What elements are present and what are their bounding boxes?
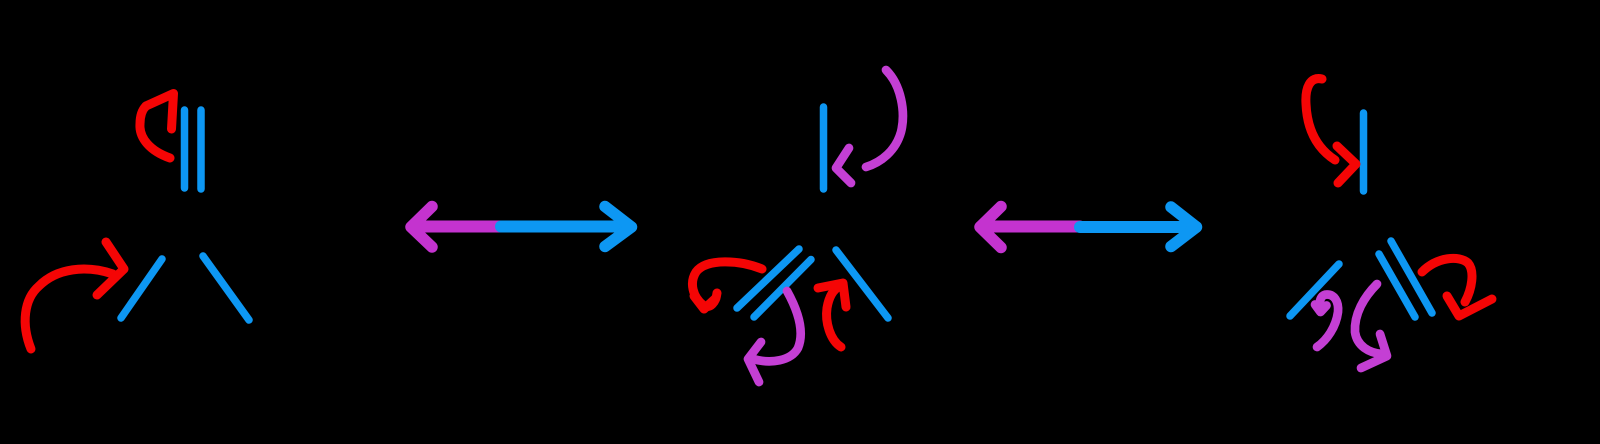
resonance arrow 2 magenta left half: [981, 221, 1080, 233]
structure 3 left single bond: [1290, 264, 1339, 316]
structure 2 right single bond: [836, 250, 888, 318]
resonance arrow 1 blue right half: [501, 221, 629, 233]
structure 2 red bottom-right arrow: [818, 283, 846, 347]
structure 2 red loop arrow (left): [692, 262, 762, 309]
structure 3 magenta small loop arrow: [1315, 295, 1338, 348]
structure 2 double bond line upper: [737, 249, 799, 308]
resonance arrow 1 magenta left head: [411, 207, 432, 248]
resonance arrow 1 magenta left half: [414, 221, 501, 233]
resonance arrow 2 blue right head: [1171, 207, 1197, 247]
resonance arrow 2 magenta left head: [980, 207, 1001, 248]
structure 2 vertical single bond: [820, 107, 828, 189]
structure 3 red top-left arrow: [1306, 79, 1356, 183]
structure 1 red curl arrow (top): [140, 94, 174, 159]
resonance arrow 1 blue right head: [605, 207, 632, 247]
structure 3 double bond line right: [1391, 241, 1432, 313]
structure 3 vertical single bond: [1360, 113, 1368, 191]
structure 2 magenta bottom arrow: [748, 291, 801, 382]
structure 3 magenta bottom arrow: [1355, 284, 1387, 368]
structure 3 double bond line left: [1379, 254, 1415, 317]
structure 1 big red arrow (bottom left): [25, 242, 124, 349]
structure 2 magenta top arrow: [836, 70, 903, 183]
structure 1 right single bond: [203, 256, 249, 320]
structure 2 double bond line lower: [754, 260, 811, 318]
structure 1 left single bond: [121, 259, 162, 318]
structure 1 double bond line right: [197, 110, 205, 189]
structure 3 red right arrow: [1422, 258, 1492, 316]
structure 1 double bond line left: [181, 110, 189, 188]
resonance arrow 2 blue right half: [1080, 221, 1196, 233]
